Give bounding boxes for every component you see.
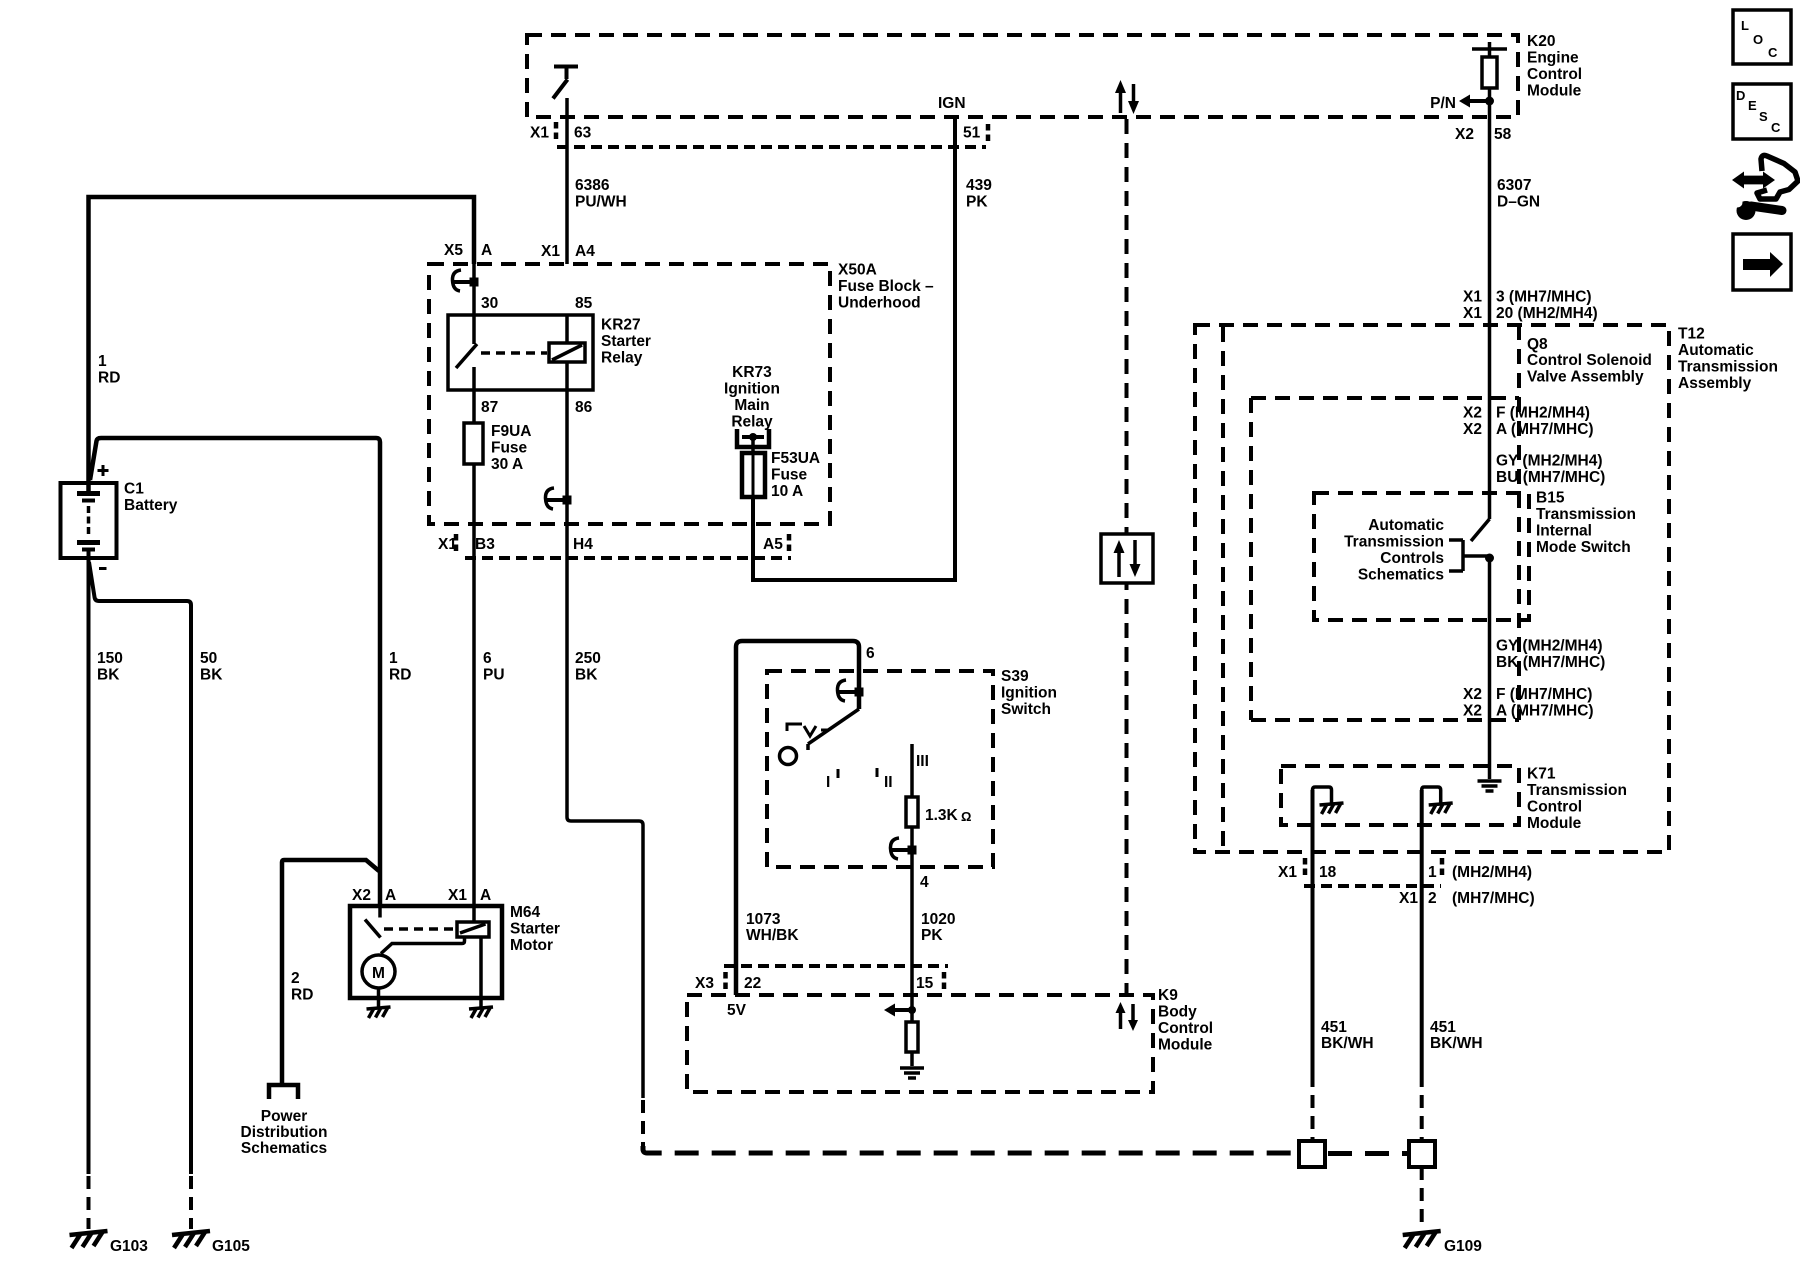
svg-text:63: 63 [574, 125, 592, 142]
S39 wire position III [910, 744, 914, 797]
svg-text:85: 85 [575, 295, 593, 312]
svg-text:BK/WH: BK/WH [1430, 1035, 1483, 1052]
svg-text:PU: PU [483, 667, 505, 684]
svg-text:S: S [1759, 109, 1768, 124]
svg-text:X2: X2 [1455, 126, 1474, 143]
connector dotted line X1/51 [557, 145, 986, 149]
svg-text:Transmission: Transmission [1678, 359, 1778, 376]
up-down arrows symbol on K20 [1119, 90, 1123, 113]
svg-text:15: 15 [916, 975, 934, 992]
connector dotted line X1 row [465, 556, 791, 560]
svg-text:K20: K20 [1527, 33, 1555, 50]
S39 ignition switch dashed box [767, 671, 993, 867]
wire battery positive right feed to starter motor (1 RD) [90, 438, 380, 906]
wire 2 RD branch to power distribution [282, 860, 379, 1083]
svg-text:X2: X2 [1463, 421, 1482, 438]
wire fuse F9UA to starter solenoid (6 PU) [472, 464, 476, 906]
wire K71 right ground down (451 BK/WH) [1420, 790, 1424, 1087]
svg-text:M64: M64 [510, 904, 541, 921]
icon forward arrow box [1733, 234, 1791, 290]
dashed wire end to G105 [189, 1176, 193, 1229]
M64 solenoid coil [472, 906, 476, 922]
svg-text:Schematics: Schematics [241, 1140, 327, 1157]
svg-text:O: O [1753, 32, 1763, 47]
svg-text:6: 6 [866, 645, 875, 662]
svg-text:A5: A5 [763, 536, 783, 553]
svg-text:Assembly: Assembly [1678, 375, 1752, 392]
svg-text:10 A: 10 A [771, 483, 803, 500]
hook connector on X5 wire [452, 270, 478, 291]
svg-text:451: 451 [1321, 1019, 1347, 1036]
connector tick 15 [942, 972, 947, 990]
wire pin 87 to fuse [472, 390, 476, 423]
connector dotted line X3 row [724, 964, 948, 968]
svg-text:6386: 6386 [575, 177, 610, 194]
svg-text:GY (MH2/MH4): GY (MH2/MH4) [1496, 638, 1603, 655]
svg-text:Relay: Relay [601, 350, 643, 367]
svg-text:X2: X2 [1463, 686, 1482, 703]
svg-text:K9: K9 [1158, 987, 1178, 1004]
middle dashed line ECM to BCM [1125, 119, 1129, 995]
B15 node dot [1485, 554, 1494, 563]
splice square S left [1299, 1141, 1325, 1167]
svg-text:22: 22 [744, 975, 761, 992]
M64 solenoid switch [365, 906, 381, 938]
svg-text:Switch: Switch [1001, 701, 1051, 718]
relay KR27 coil [565, 315, 569, 390]
svg-text:GY (MH2/MH4): GY (MH2/MH4) [1496, 453, 1603, 470]
svg-text:Motor: Motor [510, 937, 553, 954]
reference bracket automatic transmission controls schematics [1449, 540, 1489, 571]
hook connector below resistor [890, 838, 916, 859]
dashed end of 451 right wire [1420, 1095, 1424, 1142]
svg-text:K71: K71 [1527, 766, 1556, 783]
svg-text:58: 58 [1494, 126, 1512, 143]
svg-text:RD: RD [291, 987, 313, 1004]
svg-text:Transmission: Transmission [1344, 534, 1444, 551]
connector tick X1-18 [1303, 858, 1308, 877]
svg-text:D: D [1736, 88, 1745, 103]
svg-text:D–GN: D–GN [1497, 194, 1540, 211]
svg-text:2: 2 [1428, 890, 1437, 907]
svg-text:20 (MH2/MH4): 20 (MH2/MH4) [1496, 305, 1598, 322]
M64 motor circle [362, 955, 395, 988]
resistor inside K20 [1472, 42, 1507, 57]
svg-text:439: 439 [966, 177, 992, 194]
BCM K9 dashed box [687, 995, 1153, 1092]
svg-text:X1: X1 [1399, 890, 1418, 907]
svg-text:Control: Control [1158, 1020, 1213, 1037]
T12 inner dashed border [1221, 327, 1225, 851]
svg-text:30: 30 [481, 295, 498, 312]
K71 right ground elbow [1422, 787, 1441, 803]
svg-text:X2: X2 [1463, 703, 1482, 720]
svg-text:Fuse: Fuse [771, 467, 808, 484]
svg-text:WH/BK: WH/BK [746, 927, 799, 944]
K9 internal ground [910, 1052, 914, 1066]
svg-text:6307: 6307 [1497, 177, 1531, 194]
svg-text:6: 6 [483, 650, 492, 667]
svg-text:RD: RD [98, 370, 120, 387]
svg-text:Internal: Internal [1536, 523, 1592, 540]
svg-text:A: A [385, 887, 396, 904]
svg-text:1073: 1073 [746, 911, 781, 928]
svg-text:KR73: KR73 [732, 364, 772, 381]
svg-text:III: III [916, 753, 929, 770]
svg-text:50: 50 [200, 650, 217, 667]
svg-text:C1: C1 [124, 481, 144, 498]
svg-text:BU (MH7/MHC): BU (MH7/MHC) [1496, 469, 1605, 486]
ECM K20 module dashed box [527, 35, 1518, 117]
M64 coil return wire [381, 937, 465, 954]
svg-text:(MH7/MHC): (MH7/MHC) [1452, 890, 1535, 907]
K71 transmission control module dashed box [1281, 766, 1519, 825]
svg-text:Relay: Relay [731, 414, 773, 431]
svg-text:Fuse: Fuse [491, 440, 528, 457]
svg-text:Engine: Engine [1527, 50, 1579, 67]
svg-text:P/N: P/N [1430, 95, 1456, 112]
svg-text:H4: H4 [573, 536, 593, 553]
P/N arrow [1470, 99, 1490, 103]
svg-text:Controls: Controls [1380, 550, 1444, 567]
icon data link arrows [1732, 172, 1775, 189]
svg-text:1: 1 [1428, 864, 1437, 881]
connector tick 51 [986, 124, 991, 143]
hook connector on pin 6 wire [837, 680, 863, 701]
ECM main wire down to B15 (6307 D-GN) [1488, 101, 1492, 519]
resistor 1.3K [906, 797, 918, 827]
wire B15 node down to K71 ground [1488, 558, 1492, 779]
svg-text:Power: Power [261, 1108, 308, 1125]
ground under motor [367, 1007, 391, 1018]
svg-text:X2: X2 [352, 887, 371, 904]
wire KR73 to fuse F53UA [751, 437, 755, 453]
B15 transmission internal mode switch dashed box [1314, 493, 1529, 620]
wire battery negative branch 50 BK [89, 562, 191, 1174]
svg-text:L: L [1741, 18, 1749, 33]
M64 link dashed [384, 927, 455, 931]
svg-text:Mode Switch: Mode Switch [1536, 539, 1631, 556]
svg-text:X2: X2 [1463, 405, 1482, 422]
svg-text:Q8: Q8 [1527, 336, 1548, 353]
connector tick A5 [787, 534, 792, 553]
svg-text:Main: Main [734, 397, 769, 414]
svg-text:51: 51 [963, 125, 981, 142]
svg-text:Module: Module [1527, 83, 1582, 100]
dashed end of 451 left wire [1311, 1095, 1315, 1142]
M64 motor ground wire [377, 988, 381, 1007]
svg-text:150: 150 [97, 650, 123, 667]
svg-text:Control: Control [1527, 66, 1582, 83]
icon DESC box [1733, 84, 1791, 139]
svg-text:A: A [481, 242, 492, 259]
svg-text:Ignition: Ignition [724, 381, 780, 398]
svg-text:G103: G103 [110, 1238, 148, 1255]
node dot at P/N junction [1485, 97, 1494, 106]
svg-text:Module: Module [1158, 1037, 1213, 1054]
connector dotted line T12 pins [1304, 884, 1441, 888]
S39 lock position glyph [787, 724, 829, 736]
ground G109 [1403, 1231, 1441, 1248]
svg-text:5V: 5V [727, 1002, 747, 1019]
dashed ground bus to G109 [643, 1146, 1297, 1153]
svg-text:3 (MH7/MHC): 3 (MH7/MHC) [1496, 289, 1592, 306]
svg-text:Body: Body [1158, 1004, 1197, 1021]
svg-text:X1: X1 [1463, 289, 1482, 306]
battery minus sign [99, 567, 107, 570]
svg-text:BK: BK [575, 667, 598, 684]
svg-text:Transmission: Transmission [1527, 782, 1627, 799]
splice square S right [1409, 1141, 1435, 1167]
icon wrench [1737, 201, 1756, 220]
dashed wire end to G103 [87, 1176, 91, 1229]
signal ground inside K71 [1478, 781, 1502, 791]
svg-text:X1: X1 [448, 887, 467, 904]
battery plus sign [98, 465, 109, 476]
B15 switch arm [1471, 519, 1490, 541]
K71 left ground elbow [1313, 787, 1332, 803]
svg-text:E: E [1748, 98, 1757, 113]
svg-text:451: 451 [1430, 1019, 1456, 1036]
svg-text:A (MH7/MHC): A (MH7/MHC) [1496, 421, 1594, 438]
svg-text:BK: BK [97, 667, 120, 684]
dashed end of 250 BK wire [641, 1100, 645, 1146]
svg-text:(MH2/MH4): (MH2/MH4) [1452, 864, 1532, 881]
icon LOC box [1733, 10, 1791, 64]
ground under coil [469, 1007, 493, 1018]
svg-text:Module: Module [1527, 815, 1582, 832]
svg-text:4: 4 [920, 874, 929, 891]
ignition feed switch contact inside K20 [553, 67, 578, 99]
connector tick X1 [554, 122, 559, 141]
svg-text:X5: X5 [444, 242, 463, 259]
wire IGN pin 51 down (439 PK) [753, 117, 955, 580]
S39 position tick I [837, 769, 840, 778]
svg-text:1: 1 [98, 353, 107, 370]
S39 rotary contact circle [780, 748, 797, 765]
svg-text:X50A: X50A [838, 262, 877, 279]
svg-text:F (MH2/MH4): F (MH2/MH4) [1496, 405, 1590, 422]
svg-text:PU/WH: PU/WH [575, 194, 627, 211]
KR73 relay contact bracket [737, 429, 769, 447]
svg-text:2: 2 [291, 970, 300, 987]
svg-text:18: 18 [1319, 864, 1337, 881]
M64 coil ground wire [479, 937, 483, 1007]
svg-text:PK: PK [966, 194, 988, 211]
svg-text:Fuse Block –: Fuse Block – [838, 278, 934, 295]
svg-text:Distribution: Distribution [241, 1124, 328, 1141]
svg-text:30 A: 30 A [491, 456, 523, 473]
svg-text:Starter: Starter [601, 333, 651, 350]
svg-text:B3: B3 [475, 536, 495, 553]
wire battery positive to top feed and X5 pin (1 RD) [89, 197, 475, 492]
wire X5 pin into relay [472, 264, 476, 315]
starter motor M64 box [350, 906, 502, 998]
S39 switch arm [808, 709, 859, 750]
svg-text:250: 250 [575, 650, 601, 667]
svg-text:Automatic: Automatic [1368, 517, 1444, 534]
svg-text:Ω: Ω [961, 809, 971, 824]
fuse F9UA [464, 423, 483, 464]
ignition switch feed wire 1073/pin6 [736, 641, 859, 995]
svg-text:RD: RD [389, 667, 411, 684]
svg-text:F (MH7/MHC): F (MH7/MHC) [1496, 686, 1592, 703]
hook connector on H4 wire [545, 488, 571, 509]
K9 internal resistor [906, 1022, 918, 1052]
connector tick 1 [1440, 858, 1445, 877]
svg-text:IGN: IGN [938, 95, 966, 112]
relay KR27 link [481, 351, 547, 355]
svg-text:Control: Control [1527, 799, 1582, 816]
svg-text:X1: X1 [1463, 305, 1482, 322]
svg-text:A (MH7/MHC): A (MH7/MHC) [1496, 703, 1594, 720]
svg-text:C: C [1768, 45, 1778, 60]
svg-text:II: II [884, 774, 893, 791]
svg-text:I: I [826, 774, 830, 791]
svg-text:Automatic: Automatic [1678, 342, 1754, 359]
S39 position tick II [876, 768, 879, 777]
svg-text:F53UA: F53UA [771, 450, 820, 467]
svg-text:Transmission: Transmission [1536, 506, 1636, 523]
svg-text:G105: G105 [212, 1238, 250, 1255]
wire K71 left ground down (451 BK/WH) [1311, 790, 1315, 1087]
boxed up-down arrows symbol [1101, 534, 1153, 583]
svg-text:Schematics: Schematics [1358, 567, 1444, 584]
svg-text:BK/WH: BK/WH [1321, 1035, 1374, 1052]
svg-text:X3: X3 [695, 975, 714, 992]
svg-text:87: 87 [481, 399, 498, 416]
svg-text:A4: A4 [575, 243, 595, 260]
svg-text:S39: S39 [1001, 668, 1029, 685]
svg-text:X1: X1 [541, 243, 560, 260]
dashed wire to G109 [1420, 1167, 1424, 1229]
T12 automatic transmission assembly outer dashed box [1195, 325, 1669, 852]
connector tick X1-B3 [454, 534, 459, 553]
svg-text:A: A [480, 887, 491, 904]
svg-text:Control Solenoid: Control Solenoid [1527, 352, 1652, 369]
K9 up-down arrows [1119, 1011, 1123, 1029]
fuse F53UA [742, 453, 765, 497]
svg-text:1020: 1020 [921, 911, 955, 928]
svg-text:G109: G109 [1444, 1238, 1482, 1255]
wire pin 86 down (250 BK) [567, 390, 643, 1098]
Q8 control solenoid valve assembly dashed box [1251, 325, 1519, 720]
svg-text:1.3K: 1.3K [925, 807, 959, 824]
K9 internal node and left arrow [910, 995, 914, 1022]
svg-text:Battery: Battery [124, 497, 178, 514]
inner assembly dashed box [1251, 398, 1519, 720]
ground G105 [172, 1231, 210, 1248]
svg-text:Starter: Starter [510, 921, 560, 938]
off-page connector bracket power distribution [269, 1085, 298, 1099]
wire from K20 switch to pin 63 [565, 98, 569, 264]
svg-text:BK: BK [200, 667, 223, 684]
svg-text:T12: T12 [1678, 326, 1705, 343]
svg-text:KR27: KR27 [601, 317, 641, 334]
battery C1 [61, 483, 117, 558]
connector tick X3 [723, 972, 728, 990]
svg-text:C: C [1771, 120, 1781, 135]
svg-text:BK (MH7/MHC): BK (MH7/MHC) [1496, 654, 1605, 671]
relay KR27 box [448, 315, 593, 390]
wire battery negative down 150 BK [87, 551, 91, 1174]
X50A fuse block underhood dashed box [429, 264, 830, 524]
svg-text:86: 86 [575, 399, 593, 416]
svg-text:X1: X1 [530, 125, 549, 142]
ground G103 [70, 1231, 108, 1248]
svg-text:1: 1 [389, 650, 398, 667]
svg-text:Valve Assembly: Valve Assembly [1527, 369, 1644, 386]
svg-text:Ignition: Ignition [1001, 685, 1057, 702]
relay KR27 switch [456, 315, 477, 390]
svg-text:PK: PK [921, 927, 943, 944]
svg-text:F9UA: F9UA [491, 423, 531, 440]
svg-text:B15: B15 [1536, 490, 1565, 507]
wire resistor down (1020 PK) [910, 827, 914, 995]
svg-text:X1: X1 [1278, 864, 1297, 881]
svg-text:M: M [372, 965, 385, 982]
svg-text:Underhood: Underhood [838, 295, 921, 312]
